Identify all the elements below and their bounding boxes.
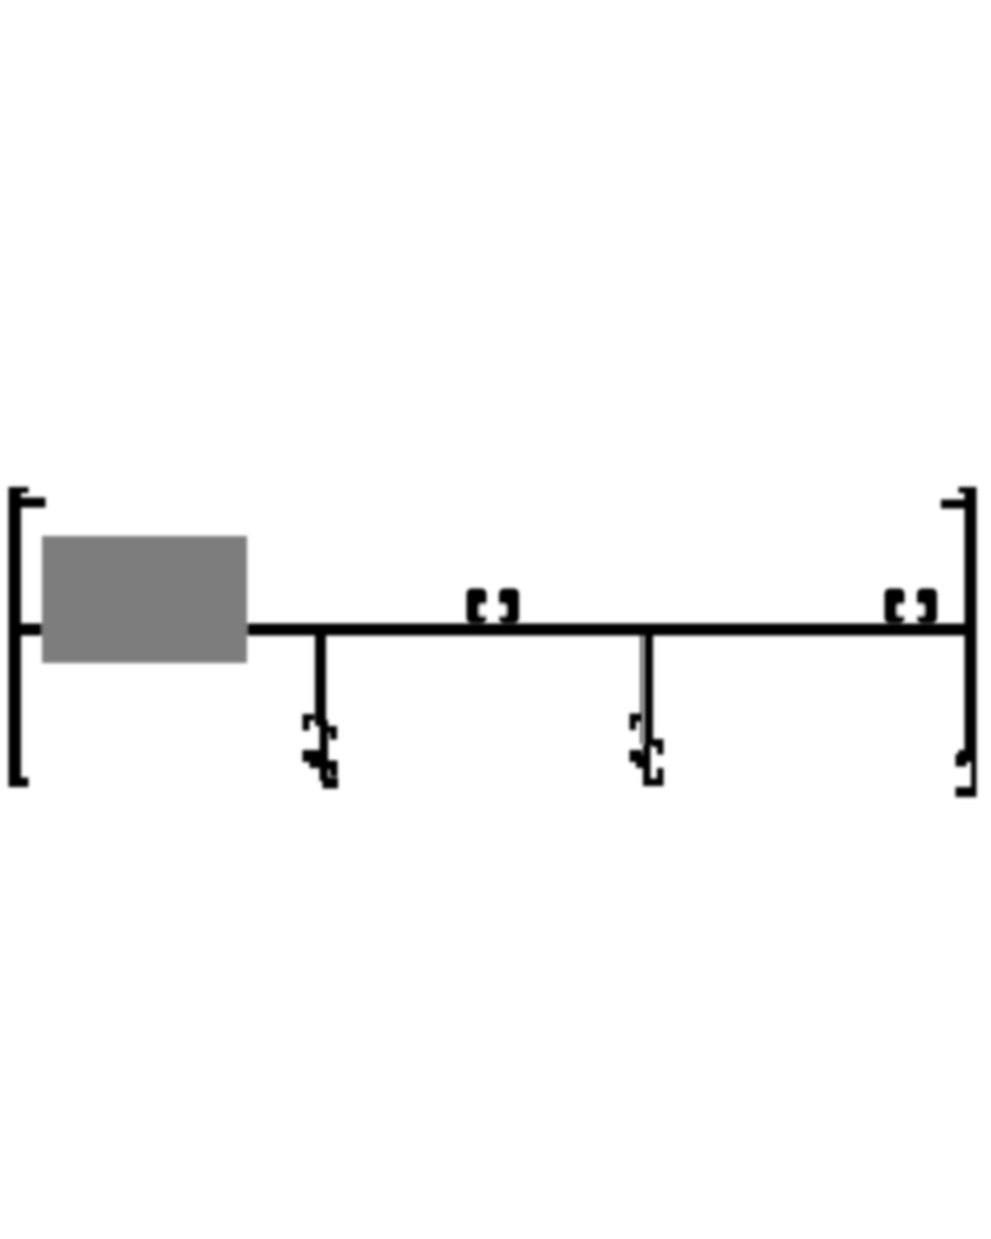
drop leg 2 bbox=[630, 634, 664, 786]
left bottom foot bbox=[9, 778, 29, 788]
clip right (twin snap posts on web) bbox=[885, 589, 938, 624]
right hook arm bbox=[941, 500, 965, 509]
clip middle (twin snap posts on web) bbox=[467, 589, 520, 624]
right bottom foot bbox=[956, 787, 977, 797]
right hook blob nub bbox=[959, 750, 969, 755]
left hook arm bbox=[9, 498, 46, 508]
left top cap bbox=[9, 487, 29, 493]
right hook blob bbox=[956, 754, 967, 767]
right bar lower thin part bbox=[971, 762, 977, 797]
wire main horizontal profile web bbox=[9, 624, 977, 636]
right mullion bar bbox=[965, 487, 977, 762]
left mullion bar bbox=[9, 487, 22, 787]
right top cap bbox=[959, 487, 977, 493]
drop leg 1 bbox=[303, 634, 339, 789]
gray glazing block bbox=[42, 536, 247, 663]
